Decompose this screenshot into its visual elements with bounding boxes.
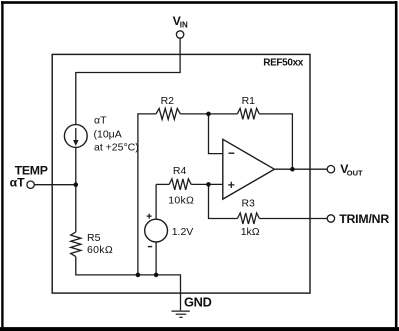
svg-text:IN: IN <box>180 20 188 29</box>
svg-text:at +25°C): at +25°C) <box>94 141 139 153</box>
svg-text:10kΩ: 10kΩ <box>168 194 194 206</box>
svg-text:R5: R5 <box>87 232 101 244</box>
svg-text:R2: R2 <box>161 95 175 107</box>
svg-text:1.2V: 1.2V <box>172 226 194 238</box>
svg-text:R3: R3 <box>241 198 255 210</box>
svg-text:αT: αT <box>10 175 26 189</box>
svg-text:αT: αT <box>94 115 107 127</box>
svg-text:1kΩ: 1kΩ <box>241 226 260 238</box>
svg-text:REF50xx: REF50xx <box>263 58 304 69</box>
svg-text:R1: R1 <box>242 95 256 107</box>
svg-text:GND: GND <box>184 294 212 309</box>
svg-text:TRIM/NR: TRIM/NR <box>339 212 389 226</box>
svg-text:OUT: OUT <box>347 169 363 178</box>
svg-text:R4: R4 <box>173 165 187 177</box>
svg-text:(10μA: (10μA <box>94 129 122 141</box>
svg-text:60kΩ: 60kΩ <box>87 244 113 256</box>
